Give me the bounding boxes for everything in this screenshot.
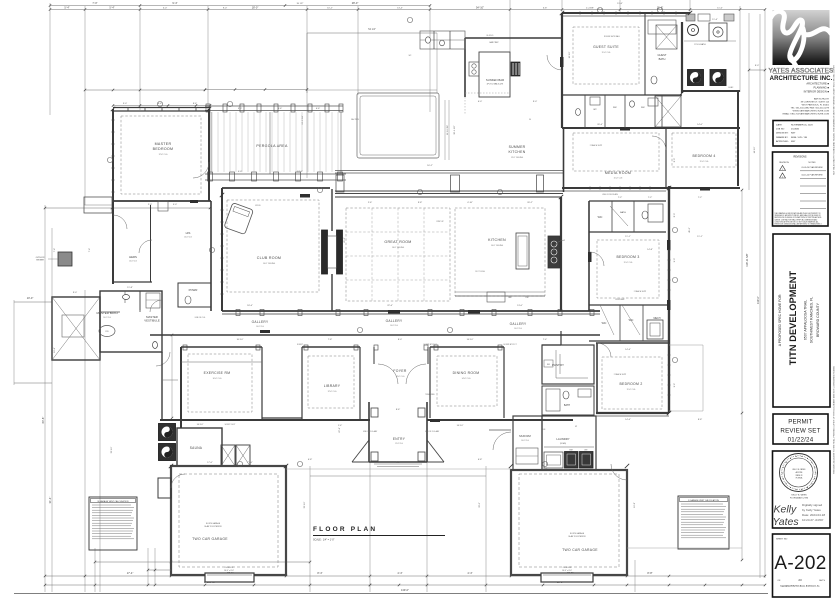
svg-text:14'-0" CLG: 14'-0" CLG	[256, 326, 265, 328]
grand piano	[224, 203, 254, 235]
east patio outline	[669, 344, 703, 346]
pergola beam north	[205, 105, 343, 107]
svg-text:11'-6": 11'-6"	[717, 7, 723, 9]
svg-text:SOFFIT AT 12 FT: SOFFIT AT 12 FT	[423, 343, 436, 346]
svg-text:12'-6" CLG: 12'-6" CLG	[159, 154, 168, 156]
bottom dimension lines	[95, 561, 310, 563]
kitchen island	[516, 233, 529, 269]
svg-text:ARCHITECTURE INC.: ARCHITECTURE INC.	[770, 76, 833, 82]
svg-text:S GARAGE VENT CALCULATION: S GARAGE VENT CALCULATION	[688, 499, 719, 502]
svg-text:2'-4 6/8": 2'-4 6/8"	[586, 7, 594, 9]
svg-text:7'-4": 7'-4"	[54, 248, 56, 253]
svg-text:SLAB TO EXTERIOR: SLAB TO EXTERIOR	[204, 525, 222, 528]
svg-text:14'-8": 14'-8"	[647, 249, 653, 251]
pergola rafters	[211, 112, 213, 172]
svg-text:22'-4": 22'-4"	[387, 305, 393, 307]
east exterior wall	[668, 186, 670, 413]
svg-text:DINING ROOM: DINING ROOM	[453, 371, 480, 375]
pool bath east wall	[681, 22, 683, 93]
fireplace	[331, 189, 333, 231]
master bath shower wing	[52, 297, 100, 360]
wic mech cluster	[589, 304, 669, 306]
svg-text:MASTER BATH: MASTER BATH	[96, 311, 117, 315]
svg-text:139'-0": 139'-0"	[401, 588, 409, 592]
svg-text:11'-8": 11'-8"	[127, 287, 133, 289]
left garage door recess	[205, 573, 254, 582]
svg-text:BAH SCHULTE: BAH SCHULTE	[814, 98, 830, 101]
svg-text:SAUNA: SAUNA	[190, 446, 203, 450]
bbq counter	[686, 14, 695, 21]
utility sink	[544, 452, 563, 468]
left garage side door	[158, 478, 171, 498]
svg-text:14'-10": 14'-10"	[457, 425, 464, 427]
svg-text:WOOD: WOOD	[255, 205, 261, 207]
svg-text:Digitally signed: Digitally signed	[802, 503, 823, 507]
svg-text:23: 23	[798, 578, 802, 582]
svg-text:04-15-24 PLAN REVIEW: 04-15-24 PLAN REVIEW	[801, 174, 822, 177]
pool bath annex fixtures	[433, 31, 435, 49]
svg-text:16'-0" x 8'-0": 16'-0" x 8'-0"	[562, 570, 572, 572]
gallery pilasters	[236, 310, 240, 316]
guest wing window band	[562, 15, 690, 17]
corridor dim line west	[171, 335, 173, 418]
svg-text:WIC: WIC	[602, 322, 607, 325]
svg-text:BEDROOM 3: BEDROOM 3	[616, 255, 639, 259]
club room walls	[221, 188, 223, 311]
svg-text:SLOPE GARAGE: SLOPE GARAGE	[206, 522, 221, 525]
pool bath south wall	[682, 90, 740, 92]
svg-text:GALLERY: GALLERY	[510, 322, 527, 326]
svg-text:JOB NO:: JOB NO:	[776, 129, 785, 131]
svg-text:OH DOOR: OH DOOR	[225, 567, 234, 569]
guest bath cluster partitions	[584, 95, 586, 128]
svg-text:8'-8": 8'-8"	[698, 419, 703, 421]
gallery south wall	[150, 334, 600, 336]
svg-text:EXERCISE RM: EXERCISE RM	[204, 371, 231, 375]
kitchen	[560, 197, 562, 311]
master bath interior partitions	[139, 291, 141, 312]
pool bath north fixtures	[688, 25, 699, 36]
svg-text:BEDROOM 4: BEDROOM 4	[692, 154, 715, 158]
svg-text:DESIGN BY:: DESIGN BY:	[776, 133, 789, 135]
pergola beam mid	[205, 173, 346, 175]
bath south	[542, 386, 594, 415]
great room coffer grid	[346, 208, 450, 301]
svg-text:9'-0": 9'-0"	[533, 101, 538, 103]
dim row west of pergola	[85, 89, 205, 91]
svg-text:11'-4": 11'-4"	[712, 19, 718, 21]
svg-text:INTERIOR DESIGN ■: INTERIOR DESIGN ■	[804, 90, 830, 94]
svg-text:KELLY B. YATES: KELLY B. YATES	[793, 468, 807, 471]
misc door arcs	[378, 364, 398, 384]
svg-text:REVISIONS: REVISIONS	[793, 156, 806, 159]
svg-text:13'-0": 13'-0"	[517, 305, 523, 307]
svg-text:11'-0" CLG: 11'-0" CLG	[614, 178, 623, 180]
svg-text:8'-0": 8'-0"	[674, 158, 676, 163]
svg-text:TWO CAR GARAGE: TWO CAR GARAGE	[562, 548, 598, 552]
svg-text:20'-4": 20'-4"	[597, 124, 603, 126]
svg-text:6'-8": 6'-8"	[478, 459, 483, 461]
sauna	[177, 428, 222, 466]
permit review box	[773, 414, 828, 444]
svg-text:19 FT CLNG: 19 FT CLNG	[475, 271, 485, 273]
svg-text:1'-4": 1'-4"	[338, 425, 343, 427]
svg-text:7'-10": 7'-10"	[247, 462, 253, 464]
window door tag circles	[157, 101, 162, 106]
master west bay cabinet	[84, 197, 112, 213]
svg-text:8'-0": 8'-0"	[674, 213, 676, 218]
svg-text:WIC: WIC	[613, 107, 617, 109]
svg-text:10'-10": 10'-10"	[237, 339, 244, 341]
svg-text:54 1/4": 54 1/4"	[368, 28, 376, 31]
svg-text:5'-0": 5'-0"	[173, 204, 178, 206]
project info table	[773, 121, 828, 147]
hers his closets	[150, 205, 152, 282]
svg-text:A PROPOSED SPEC HOME FOR:: A PROPOSED SPEC HOME FOR:	[778, 294, 782, 347]
svg-text:POOL BATH: POOL BATH	[694, 43, 706, 46]
svg-text:10'-2": 10'-2"	[327, 7, 333, 9]
svg-text:14'-10": 14'-10"	[197, 424, 204, 426]
svg-text:23-0845: 23-0845	[791, 129, 800, 131]
svg-text:SHOWER: SHOWER	[36, 260, 44, 262]
front wall east segment	[427, 419, 573, 421]
svg-text:14'-0": 14'-0"	[697, 124, 703, 126]
svg-text:21'-0": 21'-0"	[344, 237, 346, 243]
svg-text:10'-8": 10'-8"	[634, 502, 636, 508]
svg-text:9'-4": 9'-4"	[172, 1, 177, 5]
svg-text:WWW.YATESARCHITECTURE.COM: WWW.YATESARCHITECTURE.COM	[793, 110, 830, 113]
svg-text:13'-3 3/4": 13'-3 3/4"	[302, 115, 304, 124]
svg-text:5'-4": 5'-4"	[64, 5, 69, 9]
svg-text:Kelly: Kelly	[774, 504, 798, 516]
svg-text:7'-2": 7'-2"	[648, 197, 653, 199]
svg-text:14'-0" CLG: 14'-0" CLG	[390, 325, 399, 327]
dim row above master	[113, 105, 210, 107]
dining room	[429, 347, 431, 418]
svg-text:14'-4": 14'-4"	[625, 419, 631, 421]
svg-text:BEDROOM: BEDROOM	[153, 147, 174, 151]
ac units	[688, 70, 704, 86]
svg-text:VESTIBULE: VESTIBULE	[144, 319, 160, 323]
svg-text:14'-10": 14'-10"	[467, 339, 474, 341]
sw extension lines	[147, 548, 149, 585]
svg-text:2 REACH SUPP: 2 REACH SUPP	[634, 290, 647, 293]
left dimension lines	[44, 205, 46, 592]
svg-text:MASTER: MASTER	[155, 142, 172, 146]
master bath	[100, 291, 162, 352]
svg-text:SOFFIT 10 FT: SOFFIT 10 FT	[225, 424, 236, 426]
guest linen closet hatched	[656, 25, 677, 49]
svg-text:TWO CAR GARAGE: TWO CAR GARAGE	[192, 537, 228, 541]
svg-text:OH DOOR: OH DOOR	[563, 567, 572, 569]
svg-text:EMAIL: KELLY@YATESARCHITECTURE: EMAIL: KELLY@YATESARCHITECTURE.COM	[783, 113, 830, 116]
svg-text:18'-0": 18'-0"	[252, 5, 259, 9]
svg-text:CLUB ROOM: CLUB ROOM	[257, 256, 281, 260]
svg-text:6'-6": 6'-6"	[158, 103, 163, 105]
right garage door recess	[541, 573, 593, 582]
svg-text:GALLERY: GALLERY	[252, 320, 269, 324]
svg-text:11'-0" CLG: 11'-0" CLG	[602, 52, 611, 54]
svg-text:54'-10": 54'-10"	[476, 5, 484, 9]
svg-text:9'-0": 9'-0"	[223, 7, 228, 9]
front wall west segment	[160, 419, 370, 421]
svg-text:45'-0": 45'-0"	[689, 227, 691, 233]
revisions box	[773, 152, 829, 226]
sheet number box	[773, 534, 831, 597]
gallery north wall	[222, 310, 600, 312]
svg-text:LINE OF ROOF ABV: LINE OF ROOF ABV	[602, 193, 619, 196]
svg-text:7'-0": 7'-0"	[92, 1, 97, 5]
svg-text:33'-0": 33'-0"	[479, 502, 481, 508]
svg-text:14'-0" CLG: 14'-0" CLG	[462, 378, 471, 380]
svg-text:NOVEMBER 01, 2023: NOVEMBER 01, 2023	[791, 124, 813, 126]
svg-text:2 REACH SUPP: 2 REACH SUPP	[590, 144, 603, 147]
svg-text:11'-1": 11'-1"	[625, 236, 631, 238]
svg-text:ELEC: ELEC	[729, 87, 734, 89]
svg-text:by Kelly Yates: by Kelly Yates	[802, 508, 821, 512]
right garage walls	[511, 470, 627, 575]
svg-text:6'-8": 6'-8"	[308, 459, 313, 461]
master bedroom walls	[113, 107, 210, 109]
svg-text:7'-2": 7'-2"	[698, 197, 703, 199]
svg-text:(POOL WALK-UP): (POOL WALK-UP)	[487, 83, 504, 86]
svg-text:PANTRY: PANTRY	[552, 363, 564, 367]
svg-text:APPROVED:: APPROVED:	[776, 140, 789, 143]
great room top wall	[335, 196, 561, 198]
hall closets	[221, 445, 235, 466]
svg-text:6'-6": 6'-6"	[278, 108, 283, 110]
svg-text:10'-0" CLG: 10'-0" CLG	[213, 378, 222, 380]
svg-text:MECH: MECH	[653, 317, 660, 320]
master bedroom ceiling dashed	[121, 116, 201, 194]
washer dryer	[565, 452, 579, 469]
svg-text:SOFFIT AT 12 FT: SOFFIT AT 12 FT	[503, 343, 516, 346]
svg-text:9'-6": 9'-6"	[674, 383, 676, 388]
svg-text:TEMPERED: TEMPERED	[425, 394, 435, 396]
svg-text:WC: WC	[593, 109, 597, 111]
svg-text:18'-4": 18'-4"	[247, 305, 253, 307]
svg-text:TEL: 561-610-0882 FAX: 561-61: TEL: 561-610-0882 FAX: 561-610-0279	[791, 107, 830, 110]
svg-text:2'-0": 2'-0"	[148, 204, 153, 206]
right garage door arc	[479, 189, 481, 191]
west hall wall	[161, 352, 163, 420]
svg-text:118'-11 5/8": 118'-11 5/8"	[745, 253, 749, 267]
svg-text:WIST PAR BUCK, FL 33401: WIST PAR BUCK, FL 33401	[802, 104, 830, 107]
svg-text:6507 APPALOOSA TRAIL: 6507 APPALOOSA TRAIL	[804, 300, 808, 340]
svg-text:12'-0" CLG: 12'-0" CLG	[328, 391, 337, 393]
svg-text:SUMMER: SUMMER	[509, 145, 526, 149]
kitchen counters	[455, 295, 545, 297]
svg-text:7'-8": 7'-8"	[328, 339, 333, 341]
top extension lines	[49, 3, 51, 115]
svg-text:LINE OF CLG: LINE OF CLG	[195, 317, 206, 319]
svg-text:POWR: POWR	[189, 288, 198, 292]
svg-text:Copyright(c) Kelly Yates Assoc: Copyright(c) Kelly Yates Assoc. Architec…	[780, 585, 820, 588]
svg-text:LINE OF CLG ABV: LINE OF CLG ABV	[425, 430, 440, 433]
svg-text:139'-0": 139'-0"	[756, 296, 760, 304]
svg-text:60'-8": 60'-8"	[41, 417, 45, 424]
svg-text:3'-0": 3'-0"	[123, 103, 128, 105]
svg-text:10'-0" CLG: 10'-0" CLG	[129, 261, 138, 263]
bedroom2 west wall	[596, 343, 598, 413]
water closet fixtures	[123, 295, 130, 300]
svg-text:SAC PIPE: SAC PIPE	[351, 118, 360, 121]
svg-text:BATH: BATH	[659, 57, 666, 61]
pool bath annex	[420, 31, 465, 49]
exercise room	[180, 347, 182, 428]
outdoor shower	[58, 252, 72, 266]
svg-text:6'-8": 6'-8"	[543, 7, 548, 9]
bar shelving dark	[511, 62, 520, 76]
bedroom2 south wall	[596, 412, 669, 414]
svg-text:GUEST: GUEST	[658, 53, 667, 57]
dim row pergola top	[205, 89, 307, 91]
svg-text:8'-6": 8'-6"	[193, 103, 198, 105]
svg-text:6'-6": 6'-6"	[316, 108, 321, 110]
guest suite west wall	[561, 13, 563, 128]
svg-text:4'-0": 4'-0"	[238, 171, 243, 173]
svg-text:11'-1": 11'-1"	[697, 236, 703, 238]
svg-text:17'-0": 17'-0"	[207, 462, 213, 464]
svg-text:BATH: BATH	[564, 404, 570, 407]
water heaters	[159, 424, 176, 441]
svg-text:7'-4": 7'-4"	[543, 339, 548, 341]
svg-text:RGM / LVD / OB: RGM / LVD / OB	[791, 137, 808, 139]
svg-text:BAR PREP: BAR PREP	[489, 41, 499, 44]
pool	[357, 93, 439, 158]
patio edge	[307, 32, 437, 34]
svg-text:KELLY B. YATES: KELLY B. YATES	[791, 494, 807, 497]
svg-text:GREAT ROOM: GREAT ROOM	[384, 240, 411, 244]
svg-text:REVISION: REVISION	[779, 162, 789, 164]
svg-text:THE DATE ADJACENT TO THE SEAL.: THE DATE ADJACENT TO THE SEAL. PRINTED C…	[833, 365, 836, 474]
svg-text:SUNKEN BAR: SUNKEN BAR	[486, 78, 504, 82]
svg-text:11'-0" CLG: 11'-0" CLG	[624, 262, 633, 264]
svg-text:KBY: KBY	[791, 141, 796, 143]
wing south wall upper	[562, 187, 740, 189]
library	[301, 347, 303, 420]
svg-text:12'-0": 12'-0"	[297, 171, 303, 173]
pantry	[542, 345, 594, 384]
svg-text:KITCHEN: KITCHEN	[488, 238, 506, 242]
seal box	[773, 451, 831, 528]
svg-text:16'-2": 16'-2"	[427, 165, 433, 167]
svg-text:A-202: A-202	[774, 553, 826, 574]
east patio wall	[737, 91, 739, 186]
powder room	[178, 283, 211, 307]
svg-text:KITCHEN: KITCHEN	[509, 150, 526, 154]
extra dimension ticks bottom	[94, 584, 96, 586]
svg-text:WIC: WIC	[641, 107, 645, 109]
svg-text:9'-8": 9'-8"	[418, 202, 423, 204]
svg-text:GUEST SUITE: GUEST SUITE	[593, 45, 619, 49]
svg-text:22'-4": 22'-4"	[339, 427, 341, 433]
svg-text:SOFFIT: SOFFIT	[297, 344, 303, 346]
svg-text:9'-0": 9'-0"	[674, 258, 676, 263]
title block logo	[773, 10, 830, 65]
svg-text:REF: REF	[547, 364, 550, 366]
svg-text:5'-4": 5'-4"	[109, 5, 114, 9]
svg-text:14'-4": 14'-4"	[625, 349, 631, 351]
svg-text:10'-0": 10'-0"	[27, 296, 34, 300]
svg-text:33'-10": 33'-10"	[304, 501, 306, 508]
svg-text:N GARAGE VENT CALCULATION: N GARAGE VENT CALCULATION	[98, 500, 129, 503]
svg-text:LINE OF CLG ABV: LINE OF CLG ABV	[363, 430, 378, 433]
hall door arc west	[156, 352, 170, 366]
svg-text:11'-0" CLG: 11'-0" CLG	[700, 161, 709, 163]
master bedroom window mullions	[127, 107, 129, 112]
laundry	[542, 416, 596, 470]
svg-text:BATH: BATH	[620, 211, 626, 214]
svg-text:8'-6": 8'-6"	[396, 409, 401, 411]
svg-text:10'-0" CLG: 10'-0" CLG	[103, 317, 112, 319]
guest suite south wall	[562, 94, 682, 96]
svg-text:21'-4": 21'-4"	[597, 9, 603, 11]
pool deck edge line	[307, 89, 437, 91]
svg-text:13'-4": 13'-4"	[397, 7, 403, 9]
svg-text:2 REACH SUPP: 2 REACH SUPP	[614, 373, 627, 376]
svg-text:33'-10": 33'-10"	[111, 446, 113, 453]
svg-text:FRS: FRS	[105, 331, 108, 333]
svg-text:GALLERY: GALLERY	[386, 319, 403, 323]
svg-text:10'-0" CLG: 10'-0" CLG	[184, 237, 193, 239]
svg-text:LAUNDRY: LAUNDRY	[556, 437, 569, 441]
project title box	[773, 234, 830, 407]
svg-text:10:24:27 -04'00': 10:24:27 -04'00'	[802, 518, 824, 522]
svg-text:FOYER: FOYER	[393, 369, 406, 373]
svg-text:DATE:: DATE:	[776, 123, 783, 126]
svg-text:10'-0" CLG: 10'-0" CLG	[521, 440, 530, 442]
svg-text:FLORIDA AR 12786: FLORIDA AR 12786	[790, 497, 809, 500]
sunken bar walls	[465, 37, 561, 39]
svg-text:17'-4": 17'-4"	[127, 571, 134, 575]
svg-text:SCALE : 1/4" = 1'-0": SCALE : 1/4" = 1'-0"	[313, 539, 335, 542]
svg-text:6'-0": 6'-0"	[478, 101, 483, 103]
svg-text:BI-FOLD: BI-FOLD	[487, 35, 494, 37]
svg-text:FLOOR PLAN: FLOOR PLAN	[313, 526, 377, 533]
svg-text:35 1/2": 35 1/2"	[297, 3, 304, 5]
svg-text:ROUND SHTF WALL: ROUND SHTF WALL	[604, 35, 620, 38]
door header marks	[300, 194, 310, 198]
bedroom 2	[596, 342, 669, 344]
svg-text:ENTRY: ENTRY	[393, 437, 406, 441]
svg-text:Date: 2024.04.18: Date: 2024.04.18	[802, 513, 825, 517]
svg-text:7'-4": 7'-4"	[89, 248, 91, 253]
kitchen east wall lower	[560, 331, 562, 345]
media room west wall	[563, 128, 565, 192]
guest suite room	[573, 27, 639, 84]
svg-text:11'-4": 11'-4"	[657, 9, 663, 11]
svg-text:20'-2": 20'-2"	[527, 202, 533, 204]
svg-text:4'-10": 4'-10"	[467, 202, 473, 204]
svg-text:5'-0": 5'-0"	[238, 108, 243, 110]
svg-text:16'-0" x 8'-0": 16'-0" x 8'-0"	[224, 570, 234, 572]
band top wall	[562, 127, 740, 129]
front steps at entry	[374, 463, 422, 465]
svg-text:NOT VALID UNLESS SIGNED AND SE: NOT VALID UNLESS SIGNED AND SEALED. THE …	[833, 64, 836, 174]
svg-text:REVIEW SET: REVIEW SET	[780, 428, 820, 435]
kitchen range wall	[548, 236, 560, 268]
svg-text:STEP UP: STEP UP	[436, 221, 444, 223]
svg-text:2: 2	[782, 176, 783, 178]
cover dotted edge	[465, 92, 510, 94]
walkway lines between garages	[286, 468, 511, 470]
club room ceiling dashed	[227, 200, 319, 292]
svg-text:8'-8": 8'-8"	[647, 571, 652, 575]
architect seal	[780, 454, 818, 492]
svg-text:WIC: WIC	[598, 216, 603, 219]
svg-text:4'-4": 4'-4"	[467, 571, 472, 575]
